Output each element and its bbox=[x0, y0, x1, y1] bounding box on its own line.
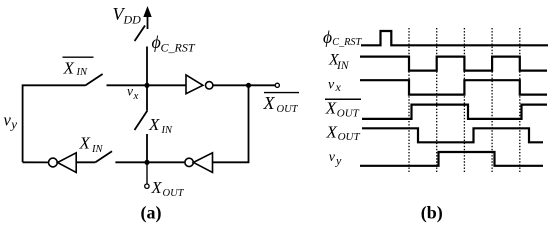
svg-text:v: v bbox=[329, 150, 336, 165]
switch XIN-bar (blade) bbox=[85, 74, 102, 86]
label XIN (b) bbox=[328, 52, 350, 73]
waveform phi_C_RST bbox=[361, 31, 548, 45]
inverter U2 (bottom-left, pointing left) bbox=[49, 153, 77, 173]
svg-text:X: X bbox=[151, 178, 163, 197]
svg-text:OUT: OUT bbox=[337, 108, 360, 120]
label vy bbox=[4, 111, 18, 132]
svg-text:y: y bbox=[9, 117, 17, 132]
svg-text:OUT: OUT bbox=[163, 188, 185, 199]
dotted grid line t5 bbox=[519, 28, 521, 173]
switch phi_C_RST (blade) bbox=[135, 26, 145, 42]
svg-text:DD: DD bbox=[123, 13, 142, 27]
svg-text:v: v bbox=[328, 78, 335, 93]
node A (junction dot) bbox=[246, 83, 251, 88]
label XOUT-bar (panel a) bbox=[263, 93, 300, 115]
svg-text:X: X bbox=[79, 134, 91, 153]
switch XIN vertical (blade) bbox=[135, 111, 148, 131]
waveform XIN bbox=[360, 57, 547, 71]
dotted grid line t2 bbox=[436, 28, 438, 173]
svg-text:x: x bbox=[335, 80, 342, 94]
waveform XOUT bbox=[362, 128, 543, 142]
wire: vx down to switch XIN bbox=[146, 85, 148, 110]
svg-text:(b): (b) bbox=[421, 203, 443, 224]
svg-text:OUT: OUT bbox=[338, 131, 361, 143]
wire: bottom rail left segment to inverter U2 output bubble bbox=[23, 161, 49, 163]
wire: switch to inverter U1 input bbox=[107, 84, 187, 86]
wire: switch to bottom node bbox=[146, 134, 148, 162]
svg-text:ϕ: ϕ bbox=[323, 27, 332, 47]
waveform XOUT-bar bbox=[362, 105, 547, 119]
dotted grid line t4 bbox=[491, 28, 493, 173]
svg-text:X: X bbox=[263, 93, 276, 113]
svg-text:IN: IN bbox=[161, 125, 173, 136]
wire: XOUT stub down from node B bbox=[146, 162, 148, 184]
label VDD bbox=[113, 4, 142, 27]
dotted grid line t3 bbox=[463, 28, 465, 173]
label vy (b) bbox=[329, 150, 342, 168]
inverter U3 (bottom-right, pointing left) bbox=[185, 153, 213, 173]
label XIN (vertical switch) bbox=[148, 115, 173, 136]
svg-text:OUT: OUT bbox=[277, 104, 299, 115]
wire: switch to node vx bbox=[146, 47, 148, 87]
svg-text:X: X bbox=[325, 99, 337, 118]
VDD supply arrow bbox=[143, 6, 151, 29]
svg-text:IN: IN bbox=[76, 67, 88, 78]
svg-text:y: y bbox=[335, 154, 342, 168]
node B (junction dot) bbox=[144, 160, 149, 165]
dotted grid line t1 bbox=[408, 28, 410, 173]
svg-text:ϕ: ϕ bbox=[152, 32, 161, 52]
wire: U2 input to switch XIN (bottom) bbox=[76, 161, 95, 163]
svg-text:X: X bbox=[148, 115, 160, 134]
label XOUT (b) bbox=[326, 122, 361, 143]
label vx (b) bbox=[328, 78, 342, 95]
wire: node A down to bottom rail bbox=[212, 85, 248, 162]
wire: left vertical riser to top rail bbox=[23, 85, 86, 162]
svg-text:IN: IN bbox=[336, 60, 350, 72]
waveform vy bbox=[360, 152, 543, 166]
svg-text:X: X bbox=[63, 58, 75, 77]
svg-text:C_RST: C_RST bbox=[332, 37, 362, 48]
inverter U1 (top, pointing right) bbox=[186, 75, 213, 94]
svg-text:v: v bbox=[4, 111, 12, 130]
label phi_C_RST (b) bbox=[323, 27, 363, 48]
terminal XOUT-bar (open circle) bbox=[275, 83, 279, 87]
svg-text:(a): (a) bbox=[141, 203, 162, 224]
label XIN (bottom switch) bbox=[79, 134, 104, 156]
label XIN-bar (top-left switch) bbox=[63, 57, 94, 78]
svg-text:X: X bbox=[326, 122, 338, 141]
wire: U1 output to node A bbox=[213, 84, 249, 86]
svg-text:v: v bbox=[127, 84, 133, 99]
wire: switch to bottom node B bbox=[115, 161, 184, 163]
waveform vx bbox=[360, 80, 547, 94]
terminal XOUT (open circle) bbox=[145, 184, 149, 188]
svg-text:x: x bbox=[133, 90, 139, 102]
label XOUT (panel a) bbox=[151, 178, 185, 199]
label vx bbox=[127, 84, 139, 102]
wire: node A to XOUT-bar terminal bbox=[249, 84, 276, 86]
switch XIN bottom (blade) bbox=[95, 151, 112, 162]
label XOUT-bar (b) bbox=[325, 99, 361, 120]
node vx (junction dot) bbox=[144, 83, 149, 88]
label phi_C_RST bbox=[152, 32, 196, 55]
svg-text:C_RST: C_RST bbox=[161, 41, 196, 55]
svg-text:IN: IN bbox=[91, 144, 103, 155]
